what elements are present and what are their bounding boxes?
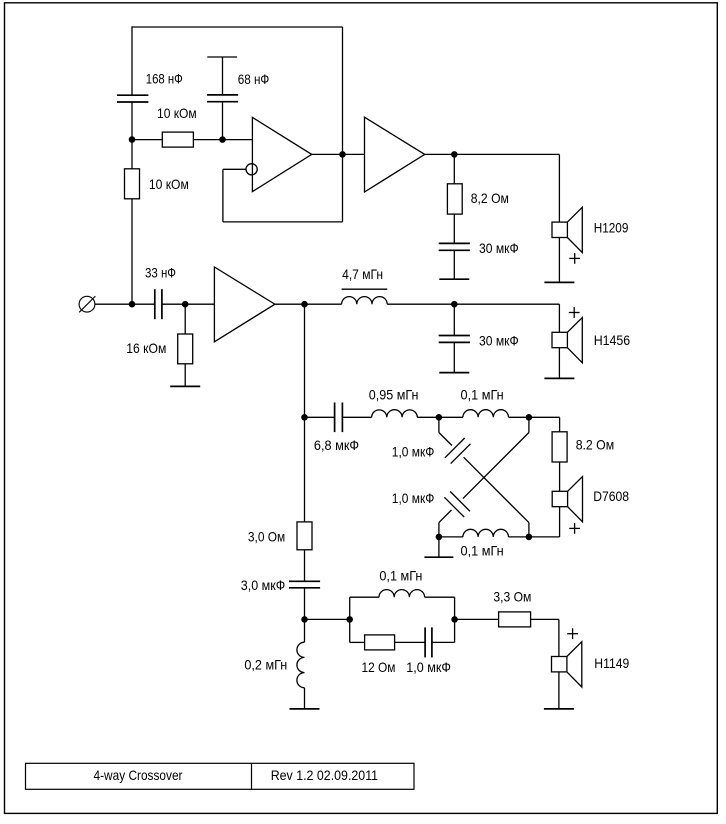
op-amp U3 bbox=[214, 267, 275, 342]
inductor 4,7 мГн L1 bbox=[342, 297, 388, 305]
plus mark H1209 bbox=[569, 253, 580, 264]
wire 168нФ to node A bbox=[131, 102, 133, 140]
svg-text:4,7 мГн: 4,7 мГн bbox=[342, 267, 383, 282]
node I junction bbox=[301, 414, 308, 421]
ground bar top RC branch bbox=[439, 278, 469, 280]
wire H1149 to ground bbox=[558, 672, 560, 709]
wire node F to op-amp U3 bbox=[185, 303, 214, 305]
wire parallel bottom right bbox=[432, 641, 455, 643]
node L junction bbox=[436, 534, 443, 541]
wire R4 to ground bbox=[184, 364, 186, 387]
wire node H to C5 bbox=[453, 304, 455, 335]
wire node E to C4 bbox=[132, 303, 155, 305]
node M junction bbox=[526, 534, 533, 541]
node K junction bbox=[526, 414, 533, 421]
node D junction bbox=[451, 151, 458, 158]
op-amp buffer U2 bbox=[365, 117, 425, 192]
wire node D line to speaker H1209 bbox=[558, 154, 560, 222]
node H junction bbox=[451, 301, 458, 308]
wire D7608 to node M bbox=[559, 507, 561, 537]
wire node G to L1 bbox=[305, 303, 342, 305]
resistor 10 кОм R1 bbox=[162, 132, 193, 147]
op-amp U1 inverting input circle bbox=[246, 164, 257, 175]
node G junction bbox=[301, 301, 308, 308]
wire C9 to node N bbox=[304, 588, 306, 620]
wire node P to R8 bbox=[455, 618, 499, 620]
capacitor 1,0 мкФ C10 bbox=[425, 627, 432, 657]
wire C3 to ground bbox=[453, 250, 455, 279]
wire R8 to speaker column bbox=[531, 618, 559, 620]
capacitor 68 нФ bbox=[207, 95, 238, 102]
svg-text:68 нФ: 68 нФ bbox=[238, 72, 270, 87]
wire L4 to node M bbox=[509, 536, 529, 538]
svg-text:1,0 мкФ: 1,0 мкФ bbox=[392, 445, 435, 460]
diagonal X upper-left segment bbox=[439, 433, 452, 446]
wire X stub top-left bbox=[438, 417, 440, 432]
op-amp U1 bbox=[252, 117, 311, 191]
wire node L to ground bbox=[438, 537, 440, 557]
node J junction bbox=[436, 414, 443, 421]
wire R5 to speaker D7608 bbox=[559, 462, 561, 491]
wire L1 to speaker line bbox=[387, 303, 559, 305]
wire to speaker H1149 bbox=[558, 619, 560, 656]
wire node K to R5 bbox=[559, 417, 561, 432]
wire X stub top-right bbox=[528, 417, 530, 432]
svg-text:8,2 Ом: 8,2 Ом bbox=[471, 191, 509, 206]
node F junction bbox=[182, 301, 189, 308]
speaker H1149 bbox=[552, 642, 582, 687]
wire node L to L4 bbox=[439, 536, 463, 538]
wire U1 output bbox=[312, 153, 343, 155]
wire X stub bottom-right bbox=[528, 523, 530, 537]
svg-text:10 кОм: 10 кОм bbox=[149, 177, 189, 192]
node A junction bbox=[129, 136, 136, 143]
svg-text:16 кОм: 16 кОм bbox=[126, 341, 166, 356]
resistor 16 кОм R4 bbox=[178, 334, 193, 364]
svg-text:4-way Crossover: 4-way Crossover bbox=[94, 768, 183, 783]
wire feedback bottom bbox=[223, 221, 343, 223]
inductor 0,1 мГн L4 bbox=[463, 529, 509, 537]
wire parallel top right bbox=[425, 596, 455, 598]
wire parallel block left top bbox=[349, 597, 351, 619]
svg-text:12 Ом: 12 Ом bbox=[362, 660, 396, 675]
wire L2 to node J bbox=[417, 416, 463, 418]
wire node I to C6 bbox=[305, 416, 335, 418]
ground bar L6 bbox=[290, 708, 320, 710]
wire R3 to C3 bbox=[453, 214, 455, 243]
wire parallel block right top bbox=[454, 597, 456, 619]
wire H1209 to ground bbox=[558, 238, 560, 283]
wire C4 to node F bbox=[162, 303, 185, 305]
wire feedback left vertical bbox=[222, 169, 224, 222]
title block divider bbox=[251, 763, 253, 789]
capacitor 168 нФ bbox=[117, 95, 148, 102]
resistor 8.2 Ом R5 bbox=[552, 432, 567, 462]
wire node I to R6 bbox=[304, 417, 306, 522]
svg-text:3,3 Ом: 3,3 Ом bbox=[493, 590, 531, 605]
svg-text:H1209: H1209 bbox=[594, 221, 629, 236]
svg-text:3,0 мкФ: 3,0 мкФ bbox=[241, 578, 285, 593]
wire L3 to node K bbox=[509, 416, 560, 418]
resistor 3,0 Ом R6 bbox=[297, 522, 312, 550]
wire parallel block left bottom bbox=[349, 619, 351, 642]
wire left column top bbox=[131, 26, 133, 95]
svg-text:Rev 1.2 02.09.2011: Rev 1.2 02.09.2011 bbox=[271, 768, 378, 783]
svg-text:0,95 мГн: 0,95 мГн bbox=[369, 387, 419, 402]
inductor 0,1 мГн L3 bbox=[463, 410, 509, 418]
diagonal X upper-right segment bbox=[463, 433, 529, 499]
wire node N to L6 bbox=[304, 619, 306, 642]
wire node A to R1 bbox=[132, 139, 162, 141]
node P junction bbox=[451, 616, 458, 623]
svg-text:H1149: H1149 bbox=[594, 656, 629, 671]
wire U3 output bbox=[275, 303, 305, 305]
svg-text:30 мкФ: 30 мкФ bbox=[479, 241, 519, 256]
capacitor 3,0 мкФ C9 bbox=[289, 581, 320, 588]
title block box bbox=[26, 763, 415, 789]
wire L6 to ground bbox=[304, 688, 306, 709]
capacitor 1,0 мкФ C7 plates bbox=[445, 438, 471, 464]
ground bar H1209 bbox=[544, 281, 574, 283]
diagonal X to node L segment bbox=[439, 510, 452, 523]
wire R6 to C9 bbox=[304, 550, 306, 582]
node O junction bbox=[346, 616, 353, 623]
wire parallel block right bottom bbox=[454, 619, 456, 642]
wire X stub bottom-left bbox=[438, 523, 440, 537]
ground bar H1149 bbox=[544, 708, 574, 710]
wire C5 to ground bbox=[453, 342, 455, 372]
capacitor 68 нФ top terminal bar bbox=[207, 56, 237, 58]
resistor 3,3 Ом R8 bbox=[499, 612, 531, 627]
wire 68нФ to node B bbox=[222, 102, 224, 140]
capacitor 33 нФ C4 bbox=[155, 289, 162, 319]
svg-text:33 нФ: 33 нФ bbox=[145, 266, 176, 281]
inductor 4,7 мГн L1 core bar bbox=[342, 288, 388, 290]
svg-text:0,1 мГн: 0,1 мГн bbox=[461, 387, 504, 402]
node N junction bbox=[301, 616, 308, 623]
wire to speaker H1456 bbox=[558, 304, 560, 332]
speaker H1209 bbox=[552, 207, 582, 252]
inductor 0,95 мГн L2 bbox=[372, 410, 418, 418]
svg-text:168 нФ: 168 нФ bbox=[146, 72, 183, 87]
ground bar mid RC branch bbox=[439, 372, 469, 374]
wire top feedback horizontal bbox=[132, 26, 343, 28]
capacitor 30 мкФ C5 bbox=[439, 336, 470, 343]
svg-text:0,1 мГн: 0,1 мГн bbox=[379, 568, 422, 583]
svg-text:30 мкФ: 30 мкФ bbox=[479, 333, 519, 348]
wire node N to node O bbox=[305, 618, 350, 620]
wire speaker col to node M bbox=[529, 536, 560, 538]
svg-text:1,0 мкФ: 1,0 мкФ bbox=[406, 660, 451, 675]
input terminal bbox=[79, 296, 95, 312]
resistor 8,2 Ом R3 bbox=[447, 184, 462, 214]
ground bar X network bbox=[424, 556, 453, 558]
capacitor 1,0 мкФ C8 plates bbox=[444, 492, 470, 518]
plus mark H1149 bbox=[567, 628, 578, 639]
capacitor 30 мкФ C3 bbox=[439, 243, 470, 250]
speaker D7608 bbox=[552, 477, 582, 522]
wire inverting input to feedback bbox=[223, 168, 246, 170]
wire input to node E bbox=[95, 303, 132, 305]
node E junction bbox=[129, 301, 136, 308]
plus mark D7608 bbox=[569, 523, 580, 534]
wire R7 to C10 bbox=[395, 641, 426, 643]
svg-text:3,0 Ом: 3,0 Ом bbox=[248, 530, 285, 545]
wire node A to R2 bbox=[131, 140, 133, 169]
svg-text:H1456: H1456 bbox=[594, 333, 631, 348]
wire node C to buffer U2 bbox=[343, 153, 365, 155]
wire node B to op-amp U1 +in bbox=[223, 139, 253, 141]
inductor 0,2 мГн L6 bbox=[297, 642, 305, 688]
wire U2 output line bbox=[425, 153, 560, 155]
svg-text:6,8 мкФ: 6,8 мкФ bbox=[314, 438, 359, 453]
svg-text:10 кОм: 10 кОм bbox=[157, 106, 197, 121]
svg-text:1,0 мкФ: 1,0 мкФ bbox=[392, 491, 435, 506]
wire 68нФ stub bbox=[222, 57, 224, 95]
diagonal X to node M segment bbox=[464, 457, 529, 522]
svg-text:8.2 Ом: 8.2 Ом bbox=[576, 438, 615, 453]
wire R2 to input node bbox=[131, 199, 133, 304]
ground bar H1456 bbox=[544, 377, 574, 379]
ground bar R4 bbox=[170, 385, 200, 387]
svg-text:D7608: D7608 bbox=[593, 489, 629, 504]
speaker H1456 bbox=[552, 318, 582, 363]
resistor 10 кОм R2 bbox=[125, 169, 140, 199]
plus mark H1456 bbox=[569, 307, 580, 318]
wire parallel bottom left bbox=[350, 641, 365, 643]
inductor 0,1 мГн L5 bbox=[379, 590, 425, 598]
wire top column right bbox=[342, 27, 344, 154]
wire node G to tweeter node bbox=[304, 304, 306, 417]
wire H1456 to ground bbox=[558, 348, 560, 379]
svg-text:0,2 мГн: 0,2 мГн bbox=[244, 658, 287, 673]
resistor 12 Ом R7 bbox=[365, 635, 395, 650]
node C junction bbox=[339, 151, 346, 158]
capacitor 6,8 мкФ C6 bbox=[335, 403, 343, 433]
svg-text:0,1 мГн: 0,1 мГн bbox=[461, 544, 504, 559]
wire node D to R3 bbox=[453, 154, 455, 183]
wire R1 to node B bbox=[193, 139, 222, 141]
wire feedback right vertical bbox=[342, 154, 344, 222]
node B junction bbox=[219, 136, 226, 143]
wire node F to R4 bbox=[184, 304, 186, 334]
wire C6 to L2 bbox=[342, 416, 371, 418]
wire parallel top left bbox=[350, 596, 379, 598]
